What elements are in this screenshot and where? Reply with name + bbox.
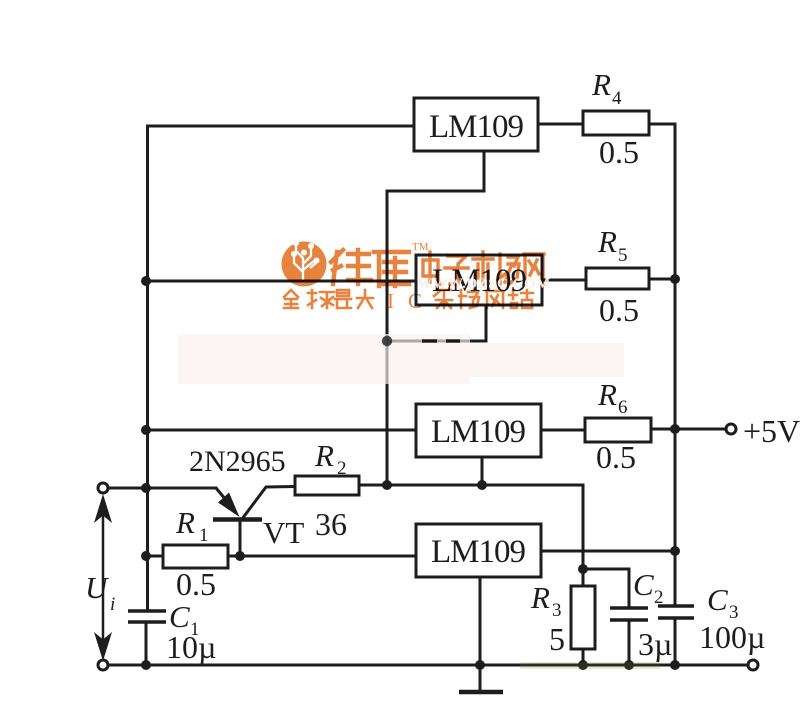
junction dot right rail at R5 xyxy=(670,274,680,284)
wm char zhan xyxy=(509,290,533,308)
svg-text:VT: VT xyxy=(263,515,304,550)
resistor R4 body xyxy=(583,111,649,135)
svg-text:0.5: 0.5 xyxy=(599,292,639,328)
op-amp regulator U3 LM109 box xyxy=(416,404,541,457)
wm char wei xyxy=(331,250,371,284)
junction dot left rail at U3 input xyxy=(141,425,151,435)
transistor VT collector diagonal xyxy=(242,487,295,520)
svg-text:10µ: 10µ xyxy=(166,629,216,665)
transistor VT base lead down to R1 junction xyxy=(239,518,242,556)
wire R5 to right rail xyxy=(649,278,675,281)
wire +5V stub xyxy=(675,428,726,431)
junction dot bottom rail at R3 xyxy=(578,660,588,670)
wm char wang2 xyxy=(486,291,504,308)
junction dot left rail at input line xyxy=(141,483,151,493)
terminal input top open circle xyxy=(98,483,108,493)
watermark text row 1 pseudo hanzi xyxy=(331,250,409,286)
Ui measurement arrow xyxy=(94,494,112,661)
wire R6 to right rail xyxy=(651,428,675,431)
terminal +5V open circle xyxy=(726,424,736,434)
svg-text:i: i xyxy=(110,594,115,615)
wm char wang xyxy=(524,254,544,284)
resistor R5 body xyxy=(586,268,649,289)
svg-text:LM109: LM109 xyxy=(431,414,526,450)
wire R1 to U4 input xyxy=(228,555,416,558)
wire top rail from left rail to U1 input xyxy=(148,126,415,611)
svg-text:R: R xyxy=(597,224,617,259)
svg-text:IC: IC xyxy=(387,289,436,313)
svg-text:0.5: 0.5 xyxy=(176,566,216,602)
svg-text:1: 1 xyxy=(199,525,209,546)
wire input to U3 xyxy=(146,429,416,432)
junction dot ground tie at U2 ground (over band) xyxy=(382,336,392,346)
wm char cai xyxy=(434,290,452,308)
svg-text:LM109: LM109 xyxy=(431,534,526,570)
wire input line from left terminal to transistor emitter xyxy=(108,487,216,490)
capacitor C1 plates xyxy=(128,611,166,622)
wire U1 output to R4 xyxy=(538,123,583,126)
op-amp regulator U4 LM109 box xyxy=(416,524,541,577)
wire R3 top stub xyxy=(582,569,585,586)
resistor R3 body xyxy=(571,586,595,649)
wire U4 output to right rail xyxy=(541,550,675,553)
wire U3 ground pin down to y485 xyxy=(481,457,484,485)
wire U3 output to R6 xyxy=(541,429,585,432)
terminal input bottom open circle xyxy=(98,660,108,670)
wire ground tie from U1 ground pin down left and down to y485 xyxy=(387,151,484,485)
junction dot right rail at U4 output xyxy=(670,546,680,556)
svg-text:100µ: 100µ xyxy=(699,619,765,655)
resistor R6 body xyxy=(585,418,651,442)
svg-text:3µ: 3µ xyxy=(638,626,672,662)
svg-text:3: 3 xyxy=(552,600,562,621)
wire R3 bottom stub xyxy=(582,649,585,665)
junction dot right rail at R6 +5V xyxy=(670,424,680,434)
wm char dian xyxy=(423,252,441,284)
wire left rail lower segment below C1 xyxy=(145,622,148,665)
svg-text:+5V: +5V xyxy=(743,413,800,449)
resistor R2 body xyxy=(295,476,359,495)
wire input to U2 xyxy=(146,280,416,283)
wm char da xyxy=(357,290,373,308)
wm char qiu xyxy=(308,290,334,308)
wire right rail below C3 xyxy=(674,618,677,665)
junction dot bottom rail at ground xyxy=(475,660,485,670)
capacitor C3 plates xyxy=(658,606,694,618)
junction dot R1 right / base node xyxy=(235,551,245,561)
watermark logo circle xyxy=(282,240,327,287)
wm char shi xyxy=(473,252,493,284)
transistor VT base bar xyxy=(213,517,262,522)
wire U4 ground pin down to bottom rail xyxy=(479,577,482,665)
junction dot left rail at R1 row xyxy=(141,551,151,561)
capacitor C2 plates xyxy=(610,608,648,620)
resistor R1 body xyxy=(163,545,228,568)
svg-text:2: 2 xyxy=(337,458,347,479)
junction dot U3 ground at y485 xyxy=(477,480,487,490)
junction dot left rail at U2 input xyxy=(141,276,151,286)
svg-text:2N2965: 2N2965 xyxy=(189,445,286,478)
wm char zui xyxy=(335,290,351,308)
wire ground row y485 from R2 right to corner down to R3 top xyxy=(359,485,583,569)
wm char chang xyxy=(498,254,519,284)
olive tinge on bottom rail xyxy=(520,662,660,669)
wire R4 to right rail corner and rail down to C3 xyxy=(649,124,675,606)
ground symbol xyxy=(459,665,503,692)
svg-text:5: 5 xyxy=(549,621,565,657)
wire R1 row from rail to R1 xyxy=(146,555,163,558)
wm char zi xyxy=(445,256,468,284)
svg-text:2: 2 xyxy=(654,587,664,608)
svg-text:C: C xyxy=(633,567,654,602)
svg-text:R: R xyxy=(597,377,617,412)
junction dot left rail at bottom rail xyxy=(141,660,151,670)
wire U2 output to R5 xyxy=(542,279,586,282)
wire C2 bottom stub xyxy=(628,620,631,665)
svg-text:R: R xyxy=(591,67,611,102)
svg-text:36: 36 xyxy=(315,506,347,542)
terminal output bottom open circle xyxy=(748,660,758,670)
junction dot bottom rail at C3 xyxy=(670,660,680,670)
svg-text:6: 6 xyxy=(618,397,628,418)
svg-text:R: R xyxy=(314,438,334,473)
svg-text:0.5: 0.5 xyxy=(596,439,636,475)
wm char gou xyxy=(459,290,479,308)
transistor VT emitter arrowhead xyxy=(218,493,240,518)
wm char quan xyxy=(284,290,298,308)
svg-text:C: C xyxy=(707,582,728,617)
wm char ku xyxy=(374,252,409,286)
svg-text:R: R xyxy=(175,505,195,540)
svg-text:U: U xyxy=(85,570,110,605)
wire U2 ground pin down and left to tie line xyxy=(387,305,486,341)
transistor VT 2N2965 emitter diagonal xyxy=(216,488,226,500)
svg-text:0.5: 0.5 xyxy=(599,134,639,170)
svg-text:LM109: LM109 xyxy=(429,109,524,145)
wire dark dashes on U2 ground wire through band xyxy=(422,339,460,342)
svg-text:4: 4 xyxy=(612,88,622,109)
svg-text:5: 5 xyxy=(618,245,628,266)
wire bottom rail xyxy=(108,664,748,667)
op-amp regulator U1 LM109 box xyxy=(414,98,538,151)
junction dot bottom rail at C2 xyxy=(624,660,634,670)
op-amp regulator U2 LM109 box xyxy=(416,255,542,305)
svg-text:TM: TM xyxy=(412,241,429,253)
junction dot R3 top node xyxy=(578,564,588,574)
watermark pale band overlay xyxy=(178,334,624,384)
junction dot ground tie at y485 xyxy=(382,480,392,490)
svg-text:R: R xyxy=(530,580,550,615)
watermark text row 2 pseudo hanzi xyxy=(284,290,533,308)
wire branch to C2 xyxy=(583,569,629,608)
